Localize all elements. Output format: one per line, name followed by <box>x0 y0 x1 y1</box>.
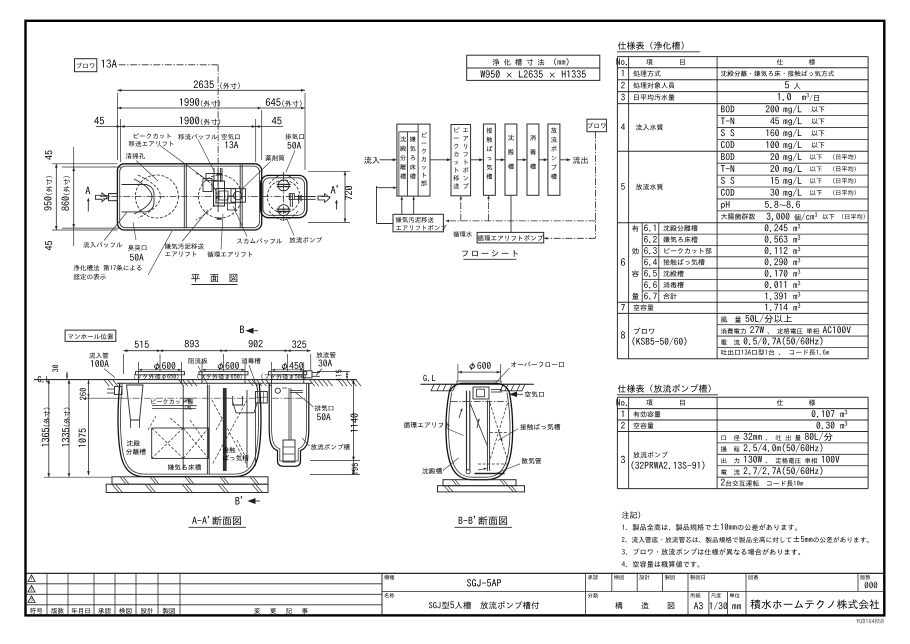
plan dim 720 right <box>308 170 350 172</box>
title block classification <box>615 602 674 609</box>
A-A labels inside <box>151 399 193 405</box>
A-A partition 1 <box>182 385 184 470</box>
flowsheet arrow 5-6 <box>539 159 545 161</box>
A-A flow arrows dashed <box>148 416 156 430</box>
plan inlet baffle <box>122 185 155 212</box>
section B marker top <box>240 326 244 333</box>
flowsheet box airlift peakcut <box>451 125 471 196</box>
GL hatching <box>104 380 109 387</box>
label disinfection tank A-A <box>241 358 260 364</box>
flowsheet circulation water label <box>453 231 472 237</box>
flowsheet blower air lines <box>595 132 597 239</box>
flowsheet arrow 2-3 <box>471 159 481 161</box>
plan label odor vent 50A <box>128 245 146 251</box>
flowsheet arrow outflow <box>560 159 568 161</box>
B-B top equipment <box>473 387 489 399</box>
title block revision number <box>865 582 878 589</box>
flowsheet anaerobic sludge transfer pump box <box>393 214 443 232</box>
A-A settling inlet U <box>233 396 243 405</box>
label inflow pipe 100A <box>89 353 108 359</box>
flowsheet box discharge pump tank <box>548 124 560 195</box>
flowsheet arrow inflow <box>380 159 395 161</box>
A-A section title <box>192 516 241 525</box>
company name <box>751 599 880 609</box>
A-A base slabs <box>112 477 268 484</box>
plan label exhaust port 50A <box>285 134 304 140</box>
flowsheet box disinfection <box>527 124 539 195</box>
flowsheet box sedimentation/anaerobic/peakcut <box>397 124 430 196</box>
title block model SGJ-5AP <box>467 579 501 586</box>
plan label circulation airlift <box>207 251 252 257</box>
A-A vent elbow 50A <box>275 388 280 393</box>
spec table 2 title <box>618 384 711 392</box>
B-B label contact aeration tank <box>520 424 560 430</box>
drawing number code <box>856 619 883 624</box>
A-A water line pump tank <box>272 397 306 399</box>
flowsheet circulation line <box>510 195 512 232</box>
A-A anaerobic media block <box>152 428 209 458</box>
B-B phi600 dim <box>457 364 459 380</box>
B-B diagonal and cross <box>470 403 487 446</box>
plan label air port 13A <box>221 134 239 140</box>
plan blower air line <box>119 64 219 66</box>
B-B label overflow port <box>511 361 564 367</box>
plan label inflow baffle <box>83 242 122 248</box>
spec table 1 title <box>618 42 684 50</box>
B-B flow arrows <box>459 409 462 418</box>
plan partitions <box>183 165 185 228</box>
plan blower box <box>75 59 97 72</box>
flowsheet arrow 3-4 <box>495 159 502 161</box>
A-A pump discharge elbow and outlet <box>290 390 303 392</box>
plan label peakcut airlift <box>134 133 171 139</box>
B-B label circulation airlift <box>404 422 450 428</box>
phi600 dims over manholes <box>138 362 140 374</box>
plan dim 2635 <box>116 93 118 160</box>
B-B label diffuser <box>522 458 542 464</box>
B-B label air port <box>525 391 544 397</box>
notes <box>622 511 640 518</box>
A-A inflow pipe through wall <box>115 387 123 395</box>
label discharge pipe 30A <box>316 352 335 358</box>
flowsheet arrow 1-2 <box>430 159 448 161</box>
B-B base slabs <box>443 480 516 486</box>
plan pump tank shell <box>261 175 307 217</box>
A-A disinfection box <box>255 392 267 404</box>
label baffle plate <box>189 358 208 364</box>
B-B tank body <box>446 383 513 479</box>
title block right columns <box>382 591 884 593</box>
plan dim 950 860 45 45 left <box>52 163 117 165</box>
plan label transfer baffle <box>178 134 217 140</box>
B-B ground line <box>423 375 435 382</box>
flowsheet arrow 4-5 <box>517 159 524 161</box>
B-prime marker bottom <box>235 496 242 504</box>
A-A section tank body <box>118 383 261 476</box>
plan label chemical cylinder <box>265 155 284 161</box>
plan outflow stub and A-prime marker <box>294 196 316 198</box>
A-A peakcut weir <box>152 405 196 407</box>
revision table <box>26 583 383 585</box>
title block paper scale unit <box>694 602 703 609</box>
spec table 2 grid <box>617 396 868 398</box>
plan manhole circle 1 <box>135 175 178 218</box>
plan flow arcs chamber2 <box>196 173 217 220</box>
title block name <box>429 602 449 609</box>
flowsheet blower box <box>587 119 606 132</box>
plan inflow stub and A marker <box>109 194 118 201</box>
flowsheet box contact aeration <box>483 124 495 195</box>
title block small labels <box>384 575 394 580</box>
A-A aeration pipe <box>223 389 226 471</box>
plan pump tank flow arcs <box>269 175 298 184</box>
section top dimension line 515 893 902 325 <box>122 354 124 374</box>
flowsheet sludge return arrows <box>401 199 403 214</box>
A-A HWL LWL marks <box>185 399 192 403</box>
spec table 1 text <box>616 58 627 65</box>
flowsheet title <box>462 250 518 257</box>
A-A pump tank vessel <box>269 383 309 466</box>
B-B airlift pipe <box>466 391 468 471</box>
B-B section title <box>459 516 507 525</box>
A-A contact aeration cross <box>212 400 247 465</box>
B-B neck cover <box>457 381 501 384</box>
tank dimension box <box>467 55 600 80</box>
plan center line <box>100 196 332 198</box>
plan flow arcs chamber1 <box>138 175 161 218</box>
title block top line <box>26 572 885 574</box>
A-A partition 2 <box>206 385 208 474</box>
flowsheet circulation airlift pump box <box>477 232 544 243</box>
spec table 1 grid <box>617 56 868 58</box>
plan chemical cylinder <box>231 189 246 203</box>
A-A settling hopper <box>233 402 258 413</box>
A-A inlet baffle funnel <box>127 385 144 420</box>
plan dim 1990 and 645 <box>261 110 263 160</box>
spec table 2 text <box>616 399 627 406</box>
A-A water level line <box>121 397 257 399</box>
flowsheet box settling <box>505 124 517 195</box>
plan label anaerobic sludge transfer airlift <box>165 243 204 249</box>
plan manhole circle 2 <box>199 175 242 218</box>
plan pump tank pumps <box>278 180 289 191</box>
B-B diffuser pipe <box>475 473 505 475</box>
A-A label pump tank <box>311 444 350 450</box>
revision triangle markers <box>28 575 35 582</box>
B-B partition <box>486 400 488 471</box>
B-B GL hatching <box>431 384 456 391</box>
plan airlift equipment cluster <box>203 179 212 192</box>
plan dim 1900 with 45 45 <box>120 119 122 162</box>
plan tank outer shell <box>117 164 261 230</box>
ground line G.L. <box>38 376 50 383</box>
plan view title <box>191 274 237 282</box>
plan manhole circle pump tank <box>267 180 300 213</box>
B-B label settling tank <box>422 468 442 474</box>
A-A tank top flange and necks <box>117 382 264 384</box>
right height dims 115 1140 195 <box>317 370 350 372</box>
A-A pump unit <box>283 440 295 462</box>
left height dims 30 260 1365 1335 1075 <box>44 379 104 381</box>
manhole position box <box>65 330 116 341</box>
plan label scum baffle <box>237 238 282 243</box>
plan label discharge pump <box>289 237 322 243</box>
A-A label vent port 50A <box>315 405 334 411</box>
plan label certification note <box>74 265 142 271</box>
plan label cleaning hole <box>126 153 145 159</box>
B-B water level line <box>451 401 509 403</box>
flowsheet inflow label <box>364 157 379 164</box>
